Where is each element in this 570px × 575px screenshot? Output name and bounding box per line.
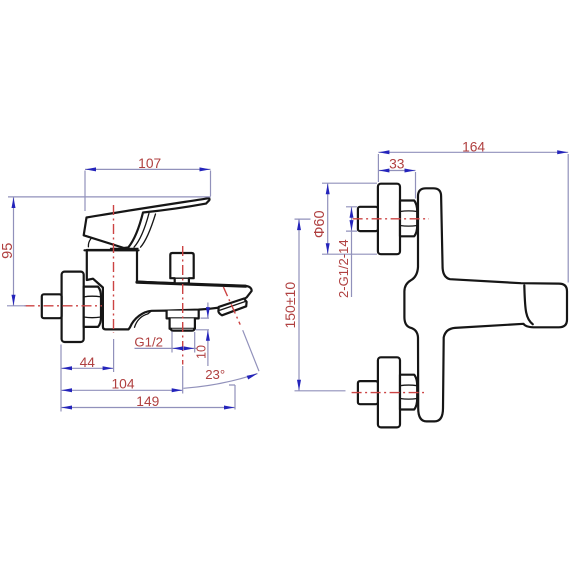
- dim 107 arrows: [85, 167, 96, 171]
- dim 44 extension left (wall plane): [60, 345, 62, 412]
- dim G1/2 arrows (inside pointing outward): [172, 346, 183, 350]
- centerline: bottom pipe axis: [352, 392, 424, 394]
- handle lever: [84, 198, 210, 248]
- wall flange (left view): [62, 272, 84, 342]
- bonnet left arc: [88, 239, 90, 247]
- angle 23 arrow: [247, 374, 258, 380]
- svg-text:107: 107: [138, 156, 161, 171]
- dim 164 extension left: [377, 154, 379, 182]
- wall flange top (right view): [378, 184, 400, 255]
- diverter knob base line: [170, 277, 193, 279]
- dim 44 arrows: [61, 366, 72, 370]
- dim G1/2 extensions: [172, 332, 195, 353]
- svg-text:10: 10: [195, 345, 209, 359]
- diverter knob: [170, 253, 193, 283]
- shower outlet flange: [167, 311, 199, 319]
- dim phi60 line: [327, 183, 329, 254]
- dim 33 arrows: [379, 169, 390, 173]
- centerline: wall pipe horizontal axis: [25, 305, 103, 307]
- hex nut (left view): [84, 287, 101, 327]
- shower outlet cap: [171, 329, 194, 331]
- hex nut top (right view): [400, 201, 417, 237]
- dim 164 line: [378, 151, 568, 153]
- dim 149 line: [61, 407, 235, 409]
- dim 10 upper segment with down arrow: [201, 303, 210, 319]
- handle neck curve 2: [134, 213, 149, 247]
- svg-text:150±10: 150±10: [282, 282, 298, 329]
- svg-text:23°: 23°: [205, 367, 225, 382]
- svg-text:Φ60: Φ60: [312, 210, 328, 238]
- hex nut facet lines: [84, 296, 101, 318]
- dim 33 line: [378, 170, 415, 172]
- hex nut bottom facet lines: [400, 385, 417, 399]
- dim 95 line: [13, 197, 15, 306]
- aerator assembly: [218, 299, 246, 316]
- hex nut top facet lines: [400, 211, 417, 226]
- hex nut bottom (right view): [400, 375, 417, 410]
- dim 10 lower segment with up arrow: [196, 330, 210, 366]
- dim 107 extension left: [84, 171, 86, 212]
- svg-text:164: 164: [462, 139, 485, 154]
- centerline: diverter/outlet vertical axis: [182, 246, 184, 365]
- dim 107 extension right: [210, 171, 212, 197]
- dim 164 arrows: [379, 150, 390, 154]
- bonnet dome line: [111, 247, 139, 249]
- dim 150+-10 line: [298, 219, 300, 391]
- svg-text:G1/2: G1/2: [134, 335, 163, 350]
- dim 149 arrows: [61, 406, 72, 410]
- spout top edge (thick): [137, 282, 246, 286]
- dim 107 line: [85, 168, 211, 170]
- dim phi60 extensions: [322, 183, 377, 254]
- dim 95 extension top: [8, 196, 211, 198]
- centerline: main body vertical axis: [113, 205, 115, 333]
- dim 104 arrows: [61, 388, 72, 392]
- handle inner division line (right view): [524, 285, 533, 324]
- centerline: aerator tilted axis: [223, 287, 240, 325]
- aerator inner edge: [220, 301, 246, 310]
- dim phi60 arrows: [326, 184, 330, 195]
- wall flange bottom (right view): [378, 357, 400, 427]
- dim 95 arrows: [12, 197, 16, 208]
- body cap line: [85, 249, 139, 251]
- angle 23 extension line (tilted): [243, 330, 259, 371]
- dim G1/2 line with text shelf: [135, 347, 197, 349]
- wire: body outline (column + spout silhouette): [87, 250, 252, 329]
- svg-text:95: 95: [0, 243, 16, 259]
- handle neck curve 3: [141, 214, 156, 247]
- wall pipe bottom (right view): [358, 381, 378, 404]
- dim 149 extension right: [229, 385, 235, 410]
- svg-text:104: 104: [111, 377, 134, 392]
- wall pipe (left view): [42, 294, 62, 318]
- svg-text:44: 44: [80, 355, 96, 370]
- dim 33 extension right: [415, 172, 417, 199]
- dim 2-G1/2-14 extensions: [346, 207, 357, 231]
- dim 2-G1/2-14 line: [351, 207, 353, 297]
- dim 164 extension right: [567, 154, 569, 283]
- body silhouette (right view): [404, 188, 567, 421]
- dim 104 extension right: [182, 366, 184, 394]
- shower outlet hex: [170, 318, 195, 328]
- angle 23 arc: [184, 374, 258, 389]
- svg-text:149: 149: [136, 394, 159, 409]
- dim 150+-10 extensions: [295, 219, 346, 391]
- dim 2-G1/2-14 arrows: [350, 207, 354, 218]
- dim 44 line: [61, 367, 114, 369]
- svg-text:2-G1/2-14: 2-G1/2-14: [336, 239, 351, 298]
- dim 95 extension bottom: [7, 305, 26, 307]
- centerline: top pipe axis: [353, 218, 429, 220]
- svg-text:33: 33: [389, 156, 405, 171]
- dim 44 extension right: [113, 339, 115, 372]
- wire: spout underside inner curve: [135, 311, 152, 328]
- dim 150+-10 arrows: [297, 219, 301, 230]
- dim 104 line: [61, 389, 183, 391]
- wall pipe top (right view): [358, 207, 378, 231]
